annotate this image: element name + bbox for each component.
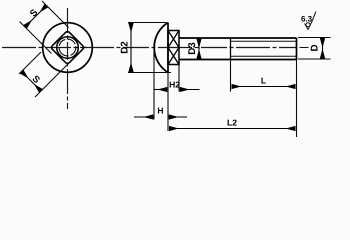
dimension line L2 — [169, 128, 296, 130]
horizontal centerline (bolt axis) — [2, 47, 296, 49]
bolt head dome arc (side view) — [154, 23, 168, 73]
svg-text:L2: L2 — [227, 118, 237, 128]
bolt end face — [296, 38, 298, 60]
extension line from dome apex — [153, 52, 155, 120]
dimension H2 (outside arrows) — [155, 89, 168, 91]
neck upper X mark — [168, 31, 179, 48]
dimension line D2 — [130, 23, 132, 72]
extension line S lower upper-edge — [19, 52, 41, 74]
svg-text:D3: D3 — [187, 42, 198, 55]
square neck rectangle (side view) — [168, 31, 179, 65]
dimension line D3 — [198, 39, 200, 60]
dimension H (outside arrows) — [134, 116, 153, 118]
dimension D2 extension top — [128, 22, 166, 24]
extension line S upper right — [42, 1, 69, 28]
svg-text:H2: H2 — [169, 80, 180, 90]
dimension line S upper — [25, 6, 47, 28]
extension line S lower lower-edge — [35, 47, 86, 98]
extension line thread start down — [230, 60, 232, 92]
svg-text:S: S — [30, 74, 42, 86]
dimension D2 extension bottom — [128, 72, 171, 74]
svg-text:D2: D2 — [120, 41, 131, 54]
extension line neck end down — [178, 65, 180, 92]
svg-text:S: S — [28, 7, 40, 19]
vertical centerline (front view) — [67, 8, 69, 109]
thread minor diameter lines — [231, 41, 297, 56]
extension line bolt end down — [296, 60, 298, 138]
square neck (rotated 45, rounded corners) — [51, 31, 85, 65]
dimension D extension bottom — [298, 58, 331, 60]
surface finish symbol 6.3 — [305, 12, 317, 30]
svg-text:6.3: 6.3 — [301, 15, 313, 24]
shank circle D3 (front view) — [57, 37, 79, 59]
centerline dash past bolt end — [300, 47, 309, 49]
dimension line D — [322, 38, 324, 59]
fillet circle (front view, broken) — [59, 39, 76, 56]
dimension line S lower — [22, 72, 42, 92]
svg-text:D: D — [310, 44, 321, 51]
svg-text:L: L — [261, 76, 266, 86]
head outer circle D2 (front view) — [43, 23, 93, 73]
svg-text:H: H — [157, 106, 163, 116]
neck lower X mark — [168, 48, 179, 65]
bolt head face line — [167, 23, 169, 73]
dimension line L — [232, 86, 296, 88]
shank outline — [179, 38, 297, 60]
extension line head face down — [167, 73, 169, 131]
extension line S upper left — [20, 22, 52, 54]
dimension D extension top — [298, 37, 331, 39]
thread start line — [230, 38, 232, 60]
